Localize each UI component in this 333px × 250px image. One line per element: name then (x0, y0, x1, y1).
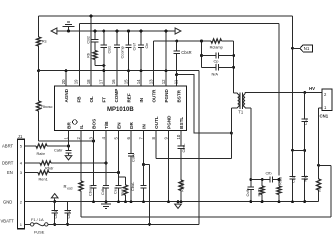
wire VBATT rail (48, 223, 199, 226)
svg-text:IL: IL (79, 125, 84, 129)
pin names top row (64, 88, 182, 102)
wire left rail to pin3 (39, 113, 95, 142)
svg-text:Cs1: Cs1 (303, 118, 308, 125)
capacitor CB1 (101, 30, 112, 86)
net label GND (3, 200, 12, 205)
transformer T1 (238, 93, 246, 115)
capacitor Cvfb (245, 178, 254, 203)
earth ground symbol (63, 22, 75, 32)
wire IL corner (317, 164, 331, 217)
svg-text:Rfb: Rfb (317, 186, 322, 192)
svg-text:Cin: Cin (144, 43, 149, 49)
svg-text:FUSE: FUSE (34, 230, 45, 235)
svg-text:11: 11 (173, 79, 178, 84)
wire VBATT riser (198, 71, 200, 225)
net label ABRT (2, 144, 14, 149)
svg-text:13: 13 (148, 79, 153, 84)
svg-text:EN: EN (117, 122, 122, 129)
wire Cdrv to bus (130, 157, 133, 203)
svg-text:14: 14 (136, 79, 141, 84)
svg-text:Cboss: Cboss (88, 185, 93, 196)
wire DBRT (24, 162, 40, 164)
resistor Resd (64, 180, 84, 192)
svg-text:Rb: Rb (85, 53, 90, 58)
capacitor Cp (202, 52, 234, 63)
capacitor Cabr (54, 146, 72, 155)
connector J1 pin numbers (20, 144, 23, 227)
net arrow right (175, 28, 181, 34)
wire Rbdr to pin4 (51, 162, 107, 165)
svg-text:R: R (64, 184, 67, 189)
capacitor NA clamp (202, 64, 234, 76)
svg-text:GND: GND (3, 200, 12, 205)
capacitor Cfb (262, 171, 280, 183)
capacitor Cdbr (100, 131, 109, 203)
svg-text:OUTR: OUTR (152, 89, 157, 103)
net arrow left (51, 28, 57, 34)
resistor Ren1 (38, 170, 49, 181)
svg-text:REF: REF (127, 93, 132, 102)
wire pin8 OUTL (156, 131, 231, 159)
capacitor Cboss (88, 131, 97, 203)
ground GND bus symbol (101, 202, 111, 209)
svg-text:FB: FB (77, 96, 82, 103)
svg-text:Cin2: Cin2 (66, 210, 71, 218)
wire VBATT top rail (39, 16, 293, 48)
pin names bottom row with pin1 mark (67, 115, 185, 129)
connector J1 body (18, 134, 25, 229)
svg-text:OL: OL (89, 96, 94, 103)
svg-text:F1 / 1A: F1 / 1A (31, 217, 44, 222)
resistor Rs (37, 37, 47, 48)
svg-text:Cdbr: Cdbr (100, 186, 105, 195)
svg-text:esd: esd (67, 187, 72, 191)
svg-text:8: 8 (151, 137, 156, 140)
svg-text:Cref: Cref (131, 42, 136, 50)
svg-text:Rbdr: Rbdr (45, 166, 54, 171)
net label EN (7, 170, 13, 175)
svg-text:BOS: BOS (92, 119, 97, 129)
svg-text:IN: IN (139, 97, 144, 102)
svg-text:DBRT: DBRT (2, 161, 14, 166)
wire VBATT from J1 (24, 223, 30, 225)
svg-text:4: 4 (101, 137, 106, 140)
svg-text:J1: J1 (18, 134, 23, 139)
pin numbers bottom row (63, 134, 181, 139)
svg-text:AGND: AGND (64, 88, 69, 102)
resistor Rfb (317, 165, 322, 201)
svg-text:Rvfb: Rvfb (257, 189, 262, 197)
wire pin7 stub (142, 131, 145, 166)
capacitor NA right (302, 150, 308, 203)
svg-text:CB1: CB1 (107, 46, 112, 54)
svg-text:Rfbd: Rfbd (278, 177, 283, 185)
resistor Rbosc (37, 101, 53, 114)
wire Rbleed to bus (180, 191, 183, 204)
svg-text:N1: N1 (304, 46, 310, 51)
wire IL line (81, 192, 331, 217)
svg-text:Cp: Cp (214, 59, 219, 64)
svg-text:PGND: PGND (167, 115, 172, 129)
wire pin19 stub (79, 24, 81, 86)
wire pin18 stub (90, 15, 93, 86)
svg-text:Ccomp: Ccomp (120, 46, 125, 58)
ground triangle bus (175, 200, 182, 208)
svg-text:VBATT: VBATT (1, 218, 15, 223)
svg-text:3: 3 (88, 137, 93, 140)
svg-text:2: 2 (76, 137, 81, 140)
wire pin12 stub (165, 30, 168, 86)
wire clamp left rail (200, 40, 203, 68)
wire ABRT (24, 145, 36, 147)
svg-text:15: 15 (123, 79, 128, 84)
svg-text:Rs: Rs (42, 39, 47, 44)
svg-text:PGND: PGND (164, 89, 169, 103)
svg-text:5: 5 (113, 137, 118, 140)
net label DBRT (2, 161, 14, 166)
ground Cabr (65, 156, 72, 160)
svg-text:HV: HV (309, 86, 315, 91)
capacitor CbsL (178, 131, 186, 180)
resistor Rabr (36, 144, 47, 156)
connector CN1 (320, 89, 332, 119)
wire CN1 pin1 (319, 108, 322, 165)
resistor Rb (85, 51, 97, 60)
wire EN (24, 172, 38, 174)
svg-text:20: 20 (61, 79, 66, 84)
svg-text:Cabr: Cabr (54, 148, 63, 153)
resistor Rfbd (277, 177, 283, 203)
svg-text:9: 9 (163, 137, 168, 140)
svg-text:1: 1 (63, 137, 68, 140)
svg-text:17: 17 (98, 79, 103, 84)
svg-text:Ren1: Ren1 (39, 177, 48, 182)
resistor Rbleed (179, 180, 185, 192)
svg-text:FT: FT (102, 97, 107, 103)
svg-text:BSTL: BSTL (179, 117, 184, 129)
wire inner top rail (80, 24, 280, 176)
wire pin11 stub (175, 73, 178, 86)
wire T1 primary top (234, 93, 238, 94)
wire BSTR branch (177, 75, 233, 135)
svg-text:19: 19 (73, 79, 78, 84)
wire pin20 stub (65, 69, 68, 86)
net arrow up (51, 194, 58, 204)
svg-text:ABRT: ABRT (2, 144, 14, 149)
svg-text:10: 10 (176, 134, 181, 139)
capacitor Cs2 (289, 150, 295, 203)
capacitor Ccomp (114, 30, 125, 86)
wire IN to VBATT (144, 165, 150, 225)
svg-text:CbaL: CbaL (130, 181, 135, 191)
svg-text:6: 6 (126, 137, 131, 140)
capacitor Cin2 (64, 202, 71, 226)
wire left rail mid (37, 48, 40, 101)
svg-text:CbsR: CbsR (181, 50, 191, 55)
svg-text:Cs2: Cs2 (291, 176, 296, 183)
svg-text:COMP: COMP (114, 89, 119, 103)
node N1 flag (293, 45, 313, 52)
wire Rabr to pin1 (47, 145, 70, 148)
node N1 rail segment (291, 47, 294, 151)
svg-text:CN1: CN1 (320, 114, 329, 119)
capacitor Cin (138, 30, 149, 86)
svg-text:DR: DR (129, 121, 134, 128)
wire OUTR to clamp (154, 40, 202, 86)
wire Ren1 to pin5 (49, 171, 120, 174)
resistor Rbdr (40, 161, 54, 171)
wire left rail top (38, 16, 40, 37)
wire HV (248, 91, 322, 94)
fuse F1 (30, 217, 48, 235)
net label HV (309, 86, 315, 91)
svg-text:CbsL: CbsL (181, 143, 186, 153)
capacitor Cin1 (52, 202, 59, 226)
svg-text:Cen: Cen (113, 187, 118, 194)
wire pin feed bus (39, 70, 199, 72)
svg-text:N/A: N/A (303, 175, 308, 182)
svg-text:Cin1: Cin1 (53, 210, 58, 218)
svg-text:Rclamp: Rclamp (210, 45, 223, 50)
wire clamp right rail (232, 41, 235, 93)
wire rail to Cs2 (291, 149, 294, 175)
wire AGND net (57, 30, 175, 32)
resistor Rclamp (202, 39, 234, 50)
svg-text:CB2: CB2 (85, 36, 90, 44)
wire T1 primary bottom (231, 107, 237, 159)
capacitor CbaL (130, 165, 147, 204)
capacitor Cdrv (128, 131, 136, 162)
svg-text:Rbosc: Rbosc (41, 104, 52, 109)
wire Rb jog (95, 60, 105, 67)
wire T1 secondary top (245, 93, 248, 95)
wire pin9 stub (167, 131, 170, 203)
resistor Ren2 (119, 177, 128, 203)
svg-text:Rabr: Rabr (37, 151, 46, 156)
svg-text:MP1010B: MP1010B (107, 107, 134, 113)
wire Cs jog (293, 149, 305, 151)
svg-text:Cvfb: Cvfb (245, 189, 250, 197)
capacitor Cen (113, 131, 122, 203)
svg-text:N/A: N/A (212, 72, 219, 77)
net label VBATT (1, 218, 15, 223)
svg-text:Ren2: Ren2 (120, 187, 125, 196)
svg-text:12: 12 (161, 79, 166, 84)
svg-text:7: 7 (138, 137, 143, 140)
svg-text:IN: IN (142, 124, 147, 129)
svg-text:Cfb: Cfb (266, 171, 272, 176)
svg-text:T1: T1 (238, 110, 244, 115)
wire pin2 stub (80, 131, 82, 180)
wire GND bus (24, 201, 318, 203)
capacitor CB2 (85, 30, 98, 51)
resistor Rvfb (257, 180, 265, 204)
op-amp U1 MP1010B body (55, 86, 187, 131)
svg-text:18: 18 (86, 79, 91, 84)
svg-text:BSTR: BSTR (177, 89, 182, 102)
svg-text:T/B: T/B (104, 121, 109, 129)
wire pin1 stub (68, 131, 70, 146)
svg-text:OUTL: OUTL (154, 116, 159, 129)
wire T1 secondary bottom (245, 107, 251, 178)
svg-text:16: 16 (111, 79, 116, 84)
svg-text:Rbleed: Rbleed (179, 180, 184, 192)
capacitor Cs1 (302, 93, 309, 152)
svg-text:EN: EN (7, 170, 13, 175)
wire FB tap (251, 178, 264, 181)
pin numbers top row (61, 79, 179, 84)
capacitor Cref (125, 30, 136, 86)
capacitor CbsR (173, 41, 191, 75)
svg-text:BR: BR (67, 121, 72, 128)
